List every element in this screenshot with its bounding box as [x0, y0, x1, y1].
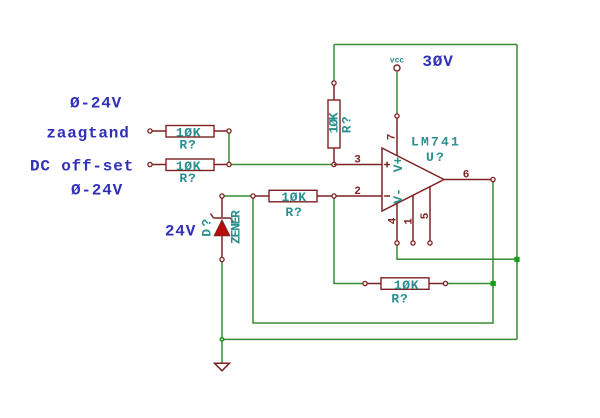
wire top rail — [334, 44, 517, 46]
zener diode D1 — [211, 194, 234, 262]
svg-text:U?: U? — [426, 150, 446, 165]
svg-text:4: 4 — [388, 217, 400, 224]
label 30V supply — [422, 53, 453, 71]
svg-text:Ø-24V: Ø-24V — [70, 95, 122, 113]
svg-text:1ØK: 1ØK — [281, 190, 306, 205]
svg-text:R?: R? — [179, 138, 196, 153]
resistor R4 10K feedback — [363, 278, 448, 307]
svg-text:24V: 24V — [165, 222, 196, 240]
pin 2 inverting — [336, 186, 382, 198]
svg-text:6: 6 — [463, 170, 470, 182]
wire inverting loop down — [253, 199, 493, 324]
wire zener to ground rail — [221, 262, 223, 339]
label zaagtand — [46, 125, 129, 143]
op-amp U1 LM741 — [382, 134, 461, 211]
wire node to pin 3 — [231, 164, 332, 166]
svg-text:Ø-24V: Ø-24V — [71, 182, 123, 200]
svg-text:2: 2 — [354, 186, 361, 198]
label ZENER value — [229, 210, 244, 244]
svg-text:ZENER: ZENER — [229, 210, 244, 244]
svg-text:DC off-set: DC off-set — [30, 158, 134, 176]
svg-text:5: 5 — [420, 212, 432, 219]
svg-text:3: 3 — [354, 154, 361, 166]
svg-text:D?: D? — [200, 216, 215, 237]
svg-text:V+: V+ — [391, 157, 406, 173]
pin 7 V+ supply — [387, 114, 400, 155]
label D? zener name — [200, 216, 215, 237]
wire R4 to output node — [448, 283, 494, 285]
pin 3 non-inverting — [334, 154, 382, 166]
wire R1 output down — [228, 133, 230, 165]
junction ground node — [220, 338, 223, 341]
resistor R5 10K vertical — [327, 81, 355, 167]
svg-text:LM741: LM741 — [411, 134, 461, 149]
svg-text:R?: R? — [340, 115, 355, 134]
svg-text:vcc: vcc — [390, 57, 405, 66]
pin 4 V- supply — [388, 204, 400, 246]
junction pin4 node — [514, 257, 519, 262]
wire ground stub — [221, 339, 223, 362]
svg-text:1: 1 — [404, 218, 416, 225]
junction output node — [491, 281, 496, 286]
label DC off-set — [30, 158, 134, 176]
label 24V zener voltage — [165, 222, 196, 240]
label DC off-set voltage range — [71, 182, 123, 200]
pin 5 offset null — [420, 187, 432, 245]
label zaagtand voltage range — [70, 95, 122, 113]
wire zener to R3 — [225, 195, 251, 197]
wire right rail — [516, 45, 518, 340]
pin 1 offset null — [404, 195, 416, 245]
wire vcc stub to pin 7 — [396, 72, 398, 114]
resistor R1 10K zaagtand — [148, 126, 231, 153]
svg-text:R?: R? — [179, 171, 196, 186]
resistor R2 10K DC off-set — [148, 159, 231, 186]
svg-text:zaagtand: zaagtand — [46, 125, 129, 143]
wire bottom rail — [222, 338, 517, 340]
ground — [215, 363, 230, 371]
resistor R3 10K inverting input — [251, 190, 336, 220]
power symbol VCC — [390, 57, 405, 71]
pin 6 output — [444, 170, 495, 182]
wire output down — [492, 182, 494, 284]
wire pin 4 net — [397, 246, 517, 260]
svg-text:7: 7 — [387, 134, 399, 141]
svg-text:R?: R? — [285, 205, 302, 220]
svg-text:V-: V- — [391, 188, 406, 204]
wire pin2 node down to R4 — [334, 199, 363, 284]
svg-text:R?: R? — [391, 291, 408, 306]
svg-text:3ØV: 3ØV — [422, 53, 453, 71]
wire vcc branch to R5 — [333, 45, 335, 82]
